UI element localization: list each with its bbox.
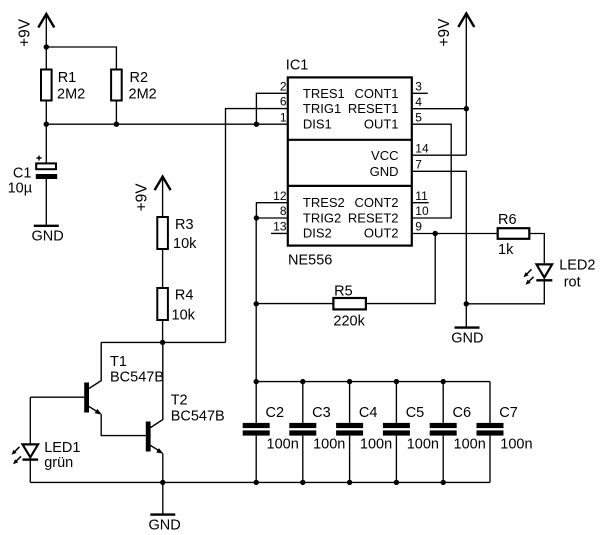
capacitor C7 xyxy=(477,382,533,483)
wire: R6 to LED2 xyxy=(529,234,544,264)
svg-text:6: 6 xyxy=(280,95,287,109)
node: R2 junction xyxy=(114,122,119,127)
svg-text:10k: 10k xyxy=(172,307,196,323)
wire: R1 bottom to node xyxy=(45,101,47,125)
+9V supply arrow (middle) xyxy=(134,177,171,217)
svg-text:GND: GND xyxy=(149,518,181,534)
wire: OUT2 down to R5 right xyxy=(366,234,435,304)
resistor R3 xyxy=(157,217,197,252)
svg-text:R3: R3 xyxy=(175,217,194,233)
wire: pin 3 stub xyxy=(412,92,428,94)
resistor R5 xyxy=(333,284,366,330)
capacitor C4 xyxy=(336,382,392,483)
svg-text:8: 8 xyxy=(280,204,287,218)
node A junction xyxy=(160,340,165,345)
resistor R1 xyxy=(41,70,85,103)
svg-text:BC547B: BC547B xyxy=(110,369,164,385)
svg-text:+9V: +9V xyxy=(134,183,151,212)
node: T2 emitter on rail xyxy=(160,480,165,485)
svg-text:4: 4 xyxy=(415,95,422,109)
svg-text:+9V: +9V xyxy=(17,18,34,47)
svg-text:C1: C1 xyxy=(13,166,32,182)
svg-text:7: 7 xyxy=(415,157,422,171)
wire: pin 1 net horizontal xyxy=(46,123,287,125)
svg-text:9: 9 xyxy=(415,220,422,234)
svg-text:DIS1: DIS1 xyxy=(303,117,332,132)
svg-text:C5: C5 xyxy=(406,405,425,421)
svg-text:R4: R4 xyxy=(175,288,194,304)
capacitor C3 xyxy=(289,382,345,483)
svg-text:R1: R1 xyxy=(58,70,77,86)
svg-text:100n: 100n xyxy=(407,437,439,453)
wire: pin 14 VCC to +9V xyxy=(412,154,467,156)
svg-text:TRIG2: TRIG2 xyxy=(303,210,341,225)
svg-text:grün: grün xyxy=(44,455,73,471)
svg-text:OUT2: OUT2 xyxy=(364,226,399,241)
svg-text:100n: 100n xyxy=(267,437,299,453)
capacitor C5 xyxy=(383,382,439,483)
svg-text:DIS2: DIS2 xyxy=(303,226,332,241)
svg-text:NE556: NE556 xyxy=(288,253,332,269)
wire: bottom ground rail xyxy=(30,481,490,483)
transistor T2 BC547B xyxy=(146,342,225,453)
svg-text:GND: GND xyxy=(370,164,399,179)
node: rail junctions bottom xyxy=(254,480,446,485)
wire: pin 4 to +9V xyxy=(412,108,467,110)
wire: R4 bottom to node A xyxy=(162,320,164,342)
svg-text:3: 3 xyxy=(415,79,422,93)
ground (bottom) xyxy=(149,515,181,534)
node: pin 9 tap xyxy=(433,231,438,236)
svg-text:R6: R6 xyxy=(498,212,517,228)
svg-text:10µ: 10µ xyxy=(8,181,33,197)
svg-text:OUT1: OUT1 xyxy=(364,117,399,132)
wire: pin 2 to pin 1 net xyxy=(256,93,287,124)
svg-text:100n: 100n xyxy=(500,437,532,453)
svg-text:GND: GND xyxy=(32,229,64,245)
wire: pin 9 OUT2 to R6 xyxy=(412,233,498,235)
wire: node A horizontal (T1 collector to TRIG1 riser) xyxy=(101,341,225,343)
node: pin2 tap junction xyxy=(254,122,259,127)
svg-text:2: 2 xyxy=(280,79,287,93)
resistor R4 xyxy=(157,288,195,324)
svg-text:100n: 100n xyxy=(454,437,486,453)
wire: pin 12 to pin 8 xyxy=(256,203,287,218)
wire: pin 8 stub xyxy=(256,217,287,219)
resistor R2 xyxy=(111,70,157,103)
+9V supply arrow (right) xyxy=(436,14,474,156)
IC1 NE556 box xyxy=(273,58,429,269)
svg-text:1k: 1k xyxy=(498,242,514,258)
wire: TRIG1 pin 6 net xyxy=(226,109,288,343)
ground (right) xyxy=(451,328,483,347)
svg-text:100n: 100n xyxy=(313,437,345,453)
svg-text:13: 13 xyxy=(273,220,287,234)
wire: T1 emitter to T2 base xyxy=(101,414,146,435)
svg-text:LED2: LED2 xyxy=(559,257,595,273)
capacitor C6 xyxy=(430,382,486,483)
svg-text:T1: T1 xyxy=(110,354,127,370)
svg-text:1: 1 xyxy=(280,110,287,124)
svg-text:GND: GND xyxy=(451,331,483,347)
wire: R5 left to pin 8 net xyxy=(256,303,333,305)
wire: pin 7 GND down xyxy=(412,171,467,327)
svg-text:R2: R2 xyxy=(130,70,149,86)
node: supply junction xyxy=(44,44,49,49)
svg-text:C4: C4 xyxy=(359,405,378,421)
svg-text:IC1: IC1 xyxy=(286,58,309,74)
node: GND/LED2 junction xyxy=(464,301,469,306)
svg-text:2M2: 2M2 xyxy=(57,87,85,103)
wire: pin 8 net down to C2 xyxy=(255,218,257,423)
ground (C1) xyxy=(32,226,64,245)
svg-text:BC547B: BC547B xyxy=(171,409,225,425)
wire: capacitor top rail xyxy=(256,381,490,383)
wire: rail to ground symbol xyxy=(162,482,164,514)
svg-text:C7: C7 xyxy=(499,405,518,421)
svg-text:CONT1: CONT1 xyxy=(354,86,398,101)
svg-text:+9V: +9V xyxy=(436,18,453,47)
node: rail junctions top xyxy=(254,379,446,384)
node: pin 8/12 junction xyxy=(254,215,259,220)
wire: R2 bottom to node xyxy=(115,101,117,125)
svg-text:14: 14 xyxy=(415,141,429,155)
svg-text:RESET2: RESET2 xyxy=(348,210,399,225)
wire: T1 base xyxy=(30,396,84,398)
svg-text:C6: C6 xyxy=(453,405,472,421)
svg-text:rot: rot xyxy=(564,275,581,291)
svg-text:TRES2: TRES2 xyxy=(303,195,345,210)
svg-text:10: 10 xyxy=(415,204,429,218)
svg-text:R5: R5 xyxy=(334,284,353,300)
svg-text:RESET1: RESET1 xyxy=(348,101,399,116)
svg-text:C3: C3 xyxy=(312,405,331,421)
svg-text:220k: 220k xyxy=(333,314,365,330)
wire: T2 emitter to rail xyxy=(162,453,164,482)
svg-text:2M2: 2M2 xyxy=(129,87,157,103)
svg-text:LED1: LED1 xyxy=(44,440,80,456)
wire: pin 5 OUT1 to pin 10 RESET2 xyxy=(412,124,451,218)
LED1 grün xyxy=(12,397,81,482)
svg-text:100n: 100n xyxy=(360,437,392,453)
svg-text:CONT2: CONT2 xyxy=(354,195,398,210)
svg-text:5: 5 xyxy=(415,110,422,124)
wire: +9V to R1 top xyxy=(45,47,47,70)
node: R5 tap xyxy=(254,301,259,306)
LED2 rot xyxy=(466,257,595,303)
transistor T1 BC547B xyxy=(84,342,164,414)
wire: pin 11 stub xyxy=(412,202,429,204)
svg-text:C2: C2 xyxy=(266,405,285,421)
+9V supply arrow (left) xyxy=(17,14,55,47)
wire: node to C1 xyxy=(45,124,47,163)
wire: C1 to ground xyxy=(45,179,47,225)
svg-text:T2: T2 xyxy=(171,393,188,409)
svg-text:VCC: VCC xyxy=(371,148,398,163)
wire: +9V junction to R2 top xyxy=(46,47,116,70)
svg-text:TRIG1: TRIG1 xyxy=(303,101,341,116)
capacitor C2 xyxy=(243,405,299,483)
svg-text:10k: 10k xyxy=(173,236,197,252)
resistor R6 xyxy=(498,212,530,258)
wire: R3 to R4 xyxy=(162,249,164,288)
capacitor C1 xyxy=(8,156,58,197)
node: pin 4 junction on +9V xyxy=(464,106,469,111)
svg-text:11: 11 xyxy=(415,189,428,203)
node: R1/C1 junction xyxy=(44,122,49,127)
wire: pin 13 stub xyxy=(271,232,288,234)
svg-text:12: 12 xyxy=(273,189,287,203)
svg-text:TRES1: TRES1 xyxy=(303,86,345,101)
